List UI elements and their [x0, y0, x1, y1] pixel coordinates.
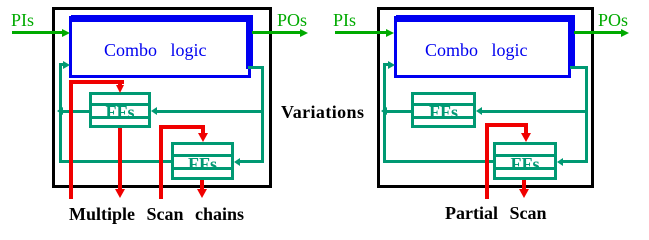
wire feedback right vertical (right diagram): [585, 66, 588, 163]
partial scan input horizontal: [485, 123, 528, 127]
FFs1R inner line upper: [414, 103, 473, 106]
caption Partial Scan: [445, 204, 547, 222]
wire PI input arrow (right diagram): [335, 31, 386, 34]
wire FFs1 output to left rail (arrow pointing left): [57, 107, 63, 115]
partial scan arrow into FFs2R: [524, 127, 528, 133]
scan chain 1 arrow into FFs1: [118, 84, 122, 86]
FF register bank FFs1 (right diagram): [411, 92, 476, 128]
label Combo logic (right): [425, 41, 528, 59]
wire right rail to FFs2 input (arrow pointing left): [234, 158, 240, 166]
wire stub into combo with arrowhead (left diagram): [62, 63, 64, 66]
partial scan output (red) vertical: [522, 180, 526, 189]
FF register bank FFs2 (right diagram): [493, 142, 557, 180]
partial scan input (red, right diagram) vertical: [485, 123, 489, 199]
combo logic box U2 thick right bar: [568, 15, 575, 69]
label POs (left): [277, 11, 307, 29]
caption Multiple Scan chains: [69, 205, 244, 223]
FFs1R inner line lower: [414, 116, 473, 119]
label POs (right): [598, 11, 628, 29]
combo logic box U1 thick top bar: [71, 15, 253, 22]
outer chip box (right diagram): [377, 7, 594, 188]
label FFs (right diagram box 2): [493, 155, 557, 173]
label Combo logic (left): [104, 41, 207, 59]
scan chain 2 output arrowhead: [197, 189, 207, 198]
label PIs (right): [333, 11, 356, 29]
partial scan output arrowhead: [519, 189, 529, 198]
caption Variations (between diagrams): [281, 103, 364, 121]
label PIs (left): [11, 11, 34, 29]
FFs2R inner line upper: [496, 154, 554, 157]
FFs2 inner line lower: [174, 167, 231, 170]
scan chain 2 input (red, left diagram) vertical: [159, 125, 163, 199]
label FFs (left diagram box 2): [171, 155, 234, 173]
combo logic box U2 (thin blue outline): [394, 16, 571, 78]
wire FFs2R output to left rail (right diagram): [383, 160, 493, 163]
scan chain 1 output arrowhead: [115, 189, 125, 198]
FFs1 inner line upper: [92, 103, 148, 106]
wire feedback left vertical (right diagram): [383, 63, 386, 163]
wire combo output to right rail (right diagram): [570, 66, 588, 69]
wire feedback right vertical (left diagram): [261, 66, 264, 163]
wire FFs1R output to left rail (arrow pointing left): [381, 107, 387, 115]
wire stub into combo with arrowhead (right diagram): [386, 63, 388, 66]
FFs2 inner line upper: [174, 154, 231, 157]
label FFs (right diagram box 1): [411, 103, 476, 121]
wire right rail to FFs2R input (arrow pointing left): [557, 158, 563, 166]
combo logic box U1 (thin blue outline): [69, 16, 251, 78]
wire combo output to right rail (left diagram): [248, 66, 264, 69]
FFs2R inner line lower: [496, 167, 554, 170]
wire feedback left vertical (left diagram): [59, 63, 62, 163]
wire PO output arrow (left diagram): [252, 31, 300, 34]
label FFs (left diagram box 1): [89, 103, 151, 121]
FF register bank FFs2 (left diagram): [171, 142, 234, 180]
FFs1 inner line lower: [92, 116, 148, 119]
scan chain 2 output (red) vertical: [200, 180, 204, 189]
combo logic box U1 thick right bar: [246, 15, 253, 69]
scan chain 1 output (red) vertical: [118, 128, 122, 189]
wire right rail to FFs1 input (arrow pointing left): [151, 107, 157, 115]
wire PI input arrow (left diagram): [12, 31, 62, 34]
FF register bank FFs1 (left diagram): [89, 92, 151, 128]
combo logic box U2 thick top bar: [396, 15, 575, 22]
scan chain 1 input (red, left diagram) vertical: [69, 80, 73, 199]
wire PO output arrow (right diagram): [574, 31, 621, 34]
scan chain 2 arrow into FFs2: [201, 129, 205, 133]
wire right rail to FFs1R input (arrow pointing left): [476, 107, 482, 115]
outer chip box (left diagram): [52, 7, 272, 188]
scan chain 2 input horizontal: [159, 125, 205, 129]
scan chain 1 input horizontal: [69, 80, 124, 84]
wire FFs2 output to left rail (left diagram): [59, 160, 171, 163]
